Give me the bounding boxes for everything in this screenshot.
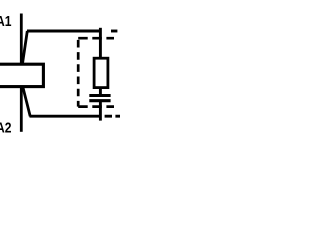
coil K1 (contactor coil box) <box>0 64 43 86</box>
wire bottom pin of module <box>99 101 102 121</box>
RC suppressor module dashed enclosure bottom edge <box>78 105 114 108</box>
resistor R1 <box>94 58 108 87</box>
wire bottom horizontal to RC module <box>30 115 102 118</box>
wire top pin of module <box>99 28 102 58</box>
wire bottom dashed continuation <box>105 115 121 118</box>
capacitor C1 plate 2 <box>89 99 110 102</box>
wire top horizontal to RC module <box>27 30 101 33</box>
svg-text:A1: A1 <box>0 13 12 30</box>
RC suppressor module dashed enclosure left edge <box>77 40 80 107</box>
wire resistor to capacitor <box>99 88 102 96</box>
capacitor C1 plate 1 <box>89 94 110 97</box>
RC suppressor module dashed enclosure top edge <box>78 37 114 40</box>
wire A1 terminal lead <box>20 14 23 65</box>
svg-text:A2: A2 <box>0 120 12 137</box>
wire top diagonal tap pin onto coil terminal <box>22 31 27 64</box>
wire top dashed continuation <box>111 30 117 33</box>
wire bottom diagonal tap pin onto coil terminal <box>23 87 30 116</box>
wire A2 terminal lead <box>20 87 23 132</box>
